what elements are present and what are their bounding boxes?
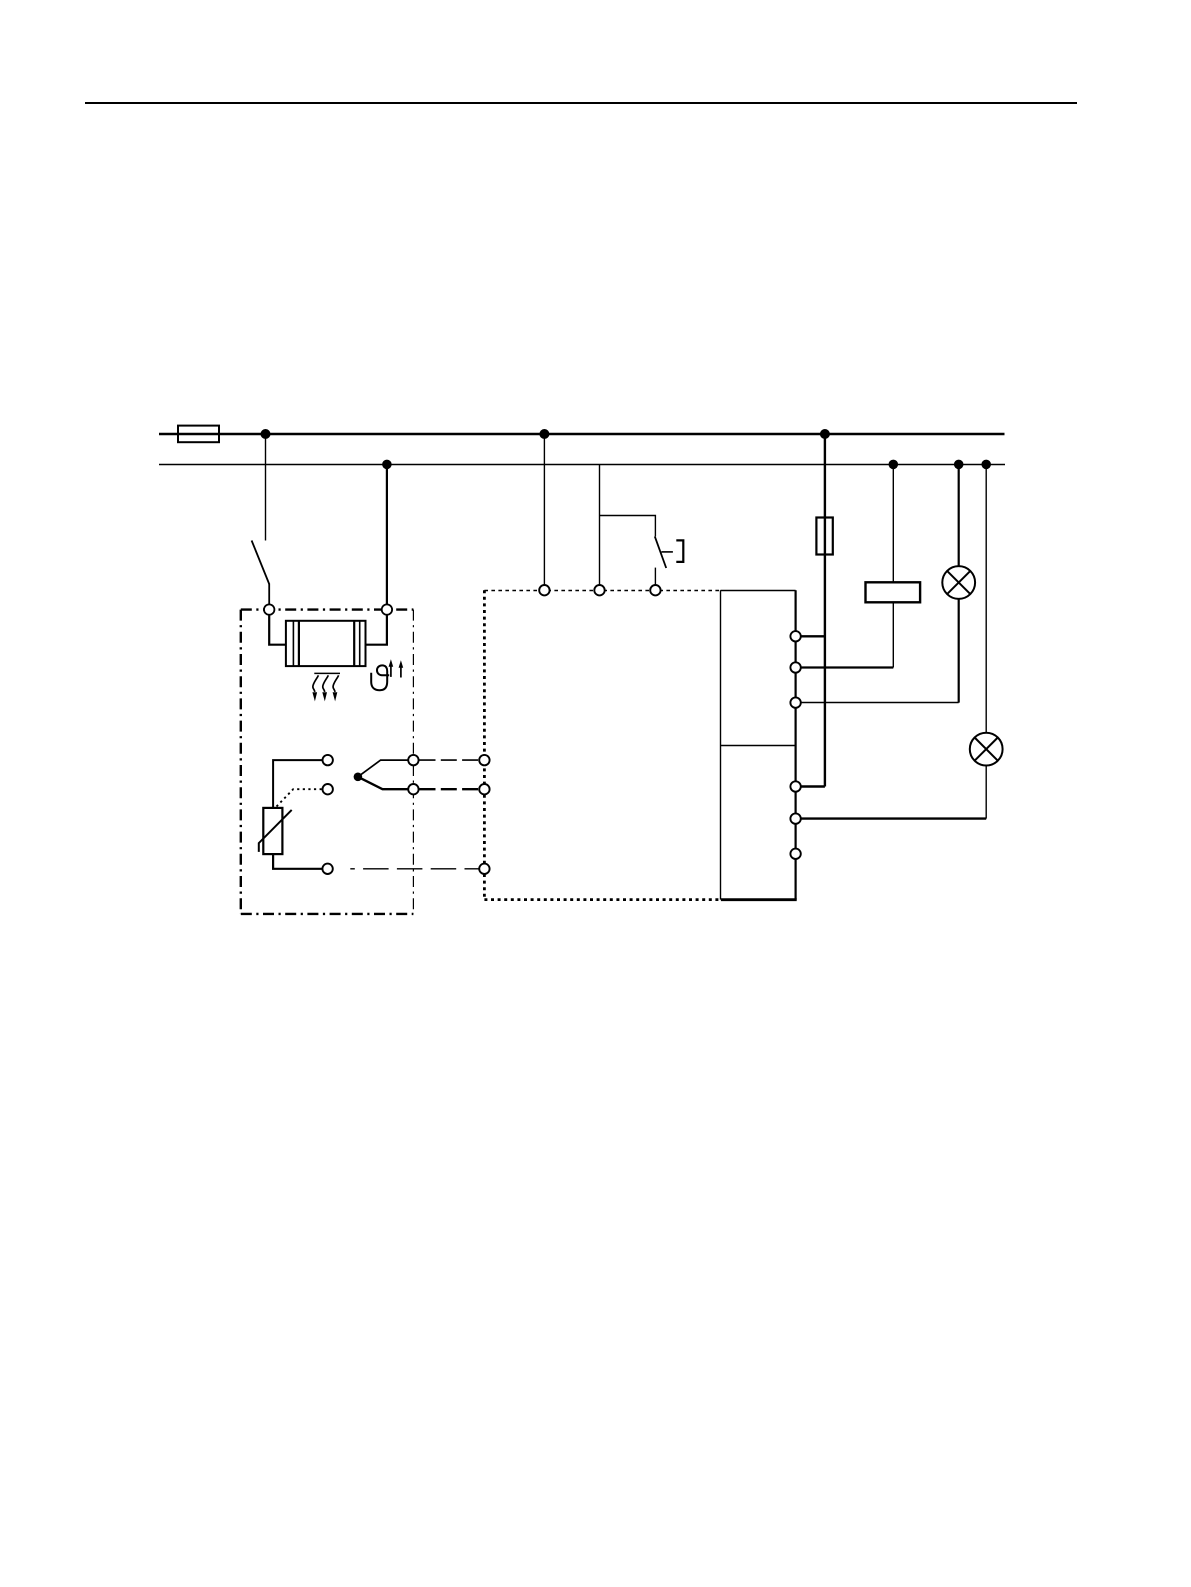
terminal: control unit supply L: [539, 585, 549, 595]
terminal 3: [790, 697, 800, 707]
electronic control unit (dotted boundary): [484, 590, 720, 899]
node: rail L / control unit branch: [539, 429, 549, 439]
fuse F2: [816, 518, 832, 555]
wire: phase rail L: [159, 433, 1005, 435]
wire: terminal 4 to fuse branch: [801, 785, 825, 787]
wire: relay coil to terminal 2: [892, 602, 894, 667]
wire: rail L to control unit supply: [543, 434, 545, 585]
appliance enclosure (dash-dot boundary): [241, 610, 414, 914]
wire: terminal 3 to lamp H1: [801, 702, 959, 704]
wire: sensor top lead: [273, 760, 323, 808]
terminal: rail N to heater (enclosure entry): [382, 604, 392, 614]
mechanical linkage (dotted) sensor to terminal: [277, 789, 323, 806]
terminal: control unit row 1: [479, 755, 489, 765]
terminal: sensor top: [323, 755, 333, 765]
wire: terminal to heater right lead: [366, 615, 387, 645]
temperature symbol: theta with two rising arrows: [371, 659, 403, 690]
terminal 1: [790, 631, 800, 641]
node: rail N / heater return branch: [382, 460, 392, 470]
wire: rail N to lamp H2: [985, 464, 987, 733]
node: rail N / lamp H2 branch: [981, 460, 991, 470]
terminal: sensor linkage: [323, 784, 333, 794]
cable: sensor bottom to control unit (dashed): [350, 868, 479, 870]
node: rail N / lamp H1 branch: [954, 460, 964, 470]
wire: rail N to relay coil: [892, 464, 894, 582]
heater element (defrost heater body): [286, 621, 366, 666]
node: rail L / fuse F2 branch: [820, 429, 830, 439]
lamp H2 (indicator light): [970, 733, 1003, 766]
terminal block (output side of control unit): [721, 590, 797, 900]
terminal 5: [790, 813, 800, 823]
node: rail L / appliance switch branch: [261, 429, 271, 439]
heat dissipation symbol (three wavy arrows): [312, 673, 340, 701]
wire: branch to door switch: [600, 516, 656, 537]
wire: rail N down to heater terminal: [386, 464, 388, 604]
fuse F1 (mains fuse on rail L): [178, 426, 219, 443]
terminal: enclosure edge row 2: [408, 784, 418, 794]
cable: enclosure to control unit row 1 (dashed): [420, 759, 480, 761]
wire: lamp H1 to terminal 3 junction: [958, 599, 960, 703]
wire: rail L down to switch S1: [265, 434, 267, 541]
wire: lamp H2 to terminal 5 wire: [985, 766, 987, 819]
terminal: enclosure edge row 1: [408, 755, 418, 765]
terminal: control unit supply N: [594, 585, 604, 595]
junction: sensor harness splice: [354, 773, 363, 782]
lamp H1 (indicator light): [942, 566, 975, 599]
terminal 2: [790, 662, 800, 672]
terminal 4: [790, 781, 800, 791]
terminal: control unit row 2: [479, 784, 489, 794]
wire: terminal 5 to lamp H2 (thick): [801, 817, 986, 819]
door switch (push-button, open blade): [655, 536, 684, 585]
cable: enclosure to control unit row 2 (dashed thick): [420, 788, 480, 790]
wire: sensor bottom lead: [273, 854, 322, 869]
node: rail N / relay branch: [889, 460, 899, 470]
wire: fuse F2 branch (rail L to terminal 4): [824, 434, 826, 787]
terminal: sensor bottom: [322, 864, 332, 874]
wire: terminal to heater left lead: [269, 615, 286, 645]
terminal: door switch input: [650, 585, 660, 595]
terminal 6: [790, 849, 800, 859]
wire: splice to terminal row 2 (thick): [358, 777, 408, 789]
relay coil K1: [866, 582, 921, 602]
switch S1 (mains switch, open blade): [252, 541, 270, 605]
wire: rail N to control unit supply: [599, 464, 601, 585]
wire: splice to terminal row 1: [358, 760, 408, 777]
NTC temperature sensor: [259, 808, 292, 854]
terminal: switch S1 to heater (enclosure entry): [264, 604, 274, 614]
wire: terminal 2 to relay: [801, 666, 894, 668]
terminal: control unit sensor input: [479, 864, 489, 874]
wire: terminal 1 to fuse branch: [801, 635, 825, 637]
wire: rail N to lamp H1: [958, 464, 960, 566]
wire: neutral rail N: [159, 464, 1005, 466]
